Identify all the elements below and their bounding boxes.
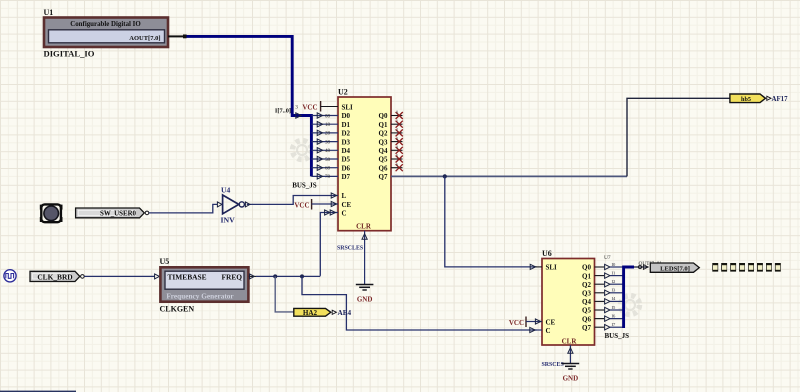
svg-text:D0: D0	[342, 112, 351, 120]
pin Q3 of U6 with bus entry to LED bus	[582, 288, 624, 298]
svg-text:08: 08	[325, 114, 331, 119]
svg-text:Frequency Generator: Frequency Generator	[166, 291, 234, 300]
LED D3	[730, 263, 736, 272]
svg-text:Q3: Q3	[379, 138, 388, 146]
port SW_USER0	[76, 208, 149, 218]
wire Q7 down to U6 SLI	[445, 176, 537, 267]
svg-text:CE: CE	[546, 318, 556, 326]
svg-text:CE: CE	[342, 201, 352, 209]
svg-text:INV: INV	[221, 215, 236, 224]
svg-text:AE4: AE4	[338, 309, 352, 317]
pin Q1 of U2 with no-ERC cross	[379, 118, 403, 128]
pin Q7 of U6 with bus entry to LED bus	[582, 322, 624, 332]
svg-text:58: 58	[325, 158, 331, 163]
watermark gear near U2 bus	[293, 141, 312, 160]
svg-text:VCC: VCC	[294, 202, 309, 210]
pin Q2 of U6 with bus entry to LED bus	[582, 279, 624, 289]
pin Q2 of U2 with no-ERC cross	[379, 127, 403, 138]
pin Q1 of U6 with bus entry to LED bus	[582, 270, 624, 280]
svg-text:3: 3	[295, 105, 298, 111]
svg-text:C: C	[546, 327, 551, 335]
bus wire AOUT[7..0] from U1 to U2 D inputs	[187, 36, 312, 176]
wire FREQ output to U2 C pin	[256, 275, 320, 277]
bus entry arrow at D0 corner	[296, 113, 301, 118]
svg-text:SRSCLES: SRSCLES	[337, 245, 364, 251]
bus wire I[7..0] to LEDS port	[624, 267, 634, 328]
pin FREQ of U5	[249, 274, 256, 279]
svg-text:Q5: Q5	[582, 307, 591, 315]
pin D7 of U2 with bus entry	[311, 173, 350, 181]
svg-text:48: 48	[325, 149, 331, 154]
sheet symbol U1 Configurable Digital IO	[44, 8, 169, 59]
dark screen edge artifact bottom-left	[0, 391, 76, 392]
LED D6	[757, 263, 763, 272]
svg-text:CLR: CLR	[562, 337, 578, 345]
svg-text:3: 3	[396, 136, 398, 141]
ground symbol GND below U6	[562, 364, 580, 383]
svg-text:68: 68	[325, 167, 331, 172]
svg-text:D6: D6	[342, 164, 351, 172]
pin Q0 of U6 with bus entry to LED bus	[582, 262, 624, 272]
svg-text:28: 28	[325, 132, 331, 137]
LED D7	[766, 263, 772, 272]
svg-text:U5: U5	[160, 257, 170, 266]
pin L of U2, wire from U4 output	[247, 192, 347, 204]
svg-text:SW_USER0: SW_USER0	[100, 211, 137, 218]
svg-text:VCC: VCC	[302, 104, 317, 112]
LED D4	[739, 263, 745, 272]
svg-text:38: 38	[325, 140, 331, 145]
pin D0 of U2 with bus entry	[311, 112, 350, 120]
svg-text:Q1: Q1	[582, 272, 591, 280]
LED D5	[748, 263, 754, 272]
pin D6 of U2 with bus entry	[311, 164, 350, 172]
svg-text:Q2: Q2	[582, 281, 591, 289]
pin Q5 of U2 with no-ERC cross	[379, 153, 403, 164]
svg-text:SRSCES: SRSCES	[542, 362, 565, 368]
pin D4 of U2 with bus entry	[311, 147, 350, 155]
inverter U4 INV	[217, 185, 250, 224]
svg-text:D4: D4	[342, 147, 351, 155]
LED D1	[712, 263, 718, 272]
component U6 (8-bit register) body	[542, 249, 595, 345]
svg-text:D7: D7	[342, 173, 351, 181]
svg-text:Q6: Q6	[379, 164, 388, 172]
svg-text:78: 78	[325, 175, 331, 180]
svg-text:1: 1	[396, 118, 398, 123]
wire FREQ to U6 C pin	[302, 276, 537, 330]
ground symbol GND below U2	[356, 285, 374, 304]
pin C of U2, wire from frequency generator	[320, 209, 346, 276]
push button SW_USER0	[40, 204, 63, 222]
svg-text:BUS_JS: BUS_JS	[292, 182, 317, 190]
pin CE of U2	[312, 201, 352, 209]
svg-text:Q7: Q7	[582, 324, 591, 332]
svg-text:Q0: Q0	[379, 112, 388, 120]
wire Q7 up to hb5/AF17 port	[627, 98, 730, 176]
pin AOUT of U1	[168, 35, 187, 39]
svg-text:FREQ: FREQ	[221, 273, 242, 282]
svg-text:TIMEBASE: TIMEBASE	[168, 273, 207, 282]
svg-text:D2: D2	[342, 130, 351, 138]
sheet symbol U5 Frequency Generator	[160, 257, 249, 314]
svg-text:DIGITAL_IO: DIGITAL_IO	[44, 49, 95, 59]
svg-text:VCC: VCC	[509, 319, 524, 327]
power port VCC at U6 CE pin	[509, 317, 526, 328]
wire CLK_BRD to U5 input	[84, 274, 159, 279]
svg-text:2: 2	[396, 127, 398, 132]
pin C of U6	[530, 327, 551, 335]
pin Q6 of U6 with bus entry to LED bus	[582, 313, 624, 323]
svg-text:I[7..0]: I[7..0]	[275, 108, 291, 115]
svg-text:Q6: Q6	[582, 315, 591, 323]
svg-text:HA2: HA2	[303, 309, 318, 317]
svg-text:Q5: Q5	[379, 156, 388, 164]
pin SLI of U2	[295, 103, 353, 111]
svg-text:U4: U4	[221, 185, 230, 194]
svg-text:Q2: Q2	[379, 130, 388, 138]
svg-text:L: L	[342, 192, 347, 200]
svg-text:Q7: Q7	[379, 173, 388, 181]
LED D8	[775, 263, 781, 272]
port LEDS[7.0]	[650, 263, 699, 272]
pin Q7 of U2	[379, 173, 388, 181]
svg-text:6: 6	[396, 162, 398, 167]
junction on FREQ net at U6 drop	[300, 274, 304, 278]
pin D5 of U2 with bus entry	[311, 156, 350, 164]
svg-text:BUS_JS: BUS_JS	[605, 332, 630, 340]
pin CLR of U2	[356, 222, 372, 284]
svg-text:5: 5	[396, 153, 398, 158]
svg-text:D5: D5	[342, 156, 351, 164]
LED D2	[721, 263, 727, 272]
svg-text:SLI: SLI	[546, 264, 558, 272]
pin Q6 of U2 with no-ERC cross	[379, 162, 403, 173]
svg-text:AOUT[7.0]: AOUT[7.0]	[129, 35, 160, 42]
svg-text:Q4: Q4	[379, 147, 388, 155]
svg-text:D3: D3	[342, 138, 351, 146]
svg-text:CLK_BRD: CLK_BRD	[37, 272, 72, 281]
svg-text:Q1: Q1	[379, 121, 388, 129]
junction on FREQ net at HA2 drop	[273, 274, 277, 278]
svg-text:CLKGEN: CLKGEN	[160, 305, 195, 314]
junction on Q7 net	[443, 174, 447, 178]
svg-text:Q0: Q0	[582, 264, 591, 272]
svg-text:U2: U2	[338, 88, 348, 97]
port CLK_BRD	[30, 271, 84, 281]
pin D1 of U2 with bus entry	[311, 121, 350, 129]
pin SLI of U6	[530, 264, 557, 272]
pin Q5 of U6 with bus entry to LED bus	[582, 305, 624, 315]
svg-text:U7: U7	[604, 255, 611, 261]
svg-text:18: 18	[325, 123, 331, 128]
wire SW_USER0 to U4 input	[149, 204, 217, 213]
port hb5 (pin AF17)	[730, 94, 788, 103]
svg-text:AF17: AF17	[772, 96, 789, 103]
wire FREQ to HA2 port	[275, 276, 294, 312]
pin Q4 of U2 with no-ERC cross	[379, 145, 403, 156]
pin Q0 of U2 with no-ERC cross	[379, 110, 403, 121]
svg-text:CLR: CLR	[356, 222, 372, 230]
pin D3 of U2 with bus entry	[311, 138, 350, 146]
clock source icon	[4, 270, 16, 282]
svg-text:GND: GND	[357, 296, 373, 304]
svg-text:Q3: Q3	[582, 290, 591, 298]
power port VCC at U2 CE pin	[294, 199, 311, 210]
svg-text:Q4: Q4	[582, 298, 591, 306]
svg-text:U6: U6	[542, 249, 552, 258]
svg-text:SLI: SLI	[342, 103, 354, 111]
svg-text:U1: U1	[44, 8, 54, 17]
svg-text:0: 0	[396, 110, 398, 115]
pin D2 of U2 with bus entry	[311, 130, 350, 138]
pin Q3 of U2 with no-ERC cross	[379, 136, 403, 147]
svg-text:Configurable Digital IO: Configurable Digital IO	[70, 21, 141, 28]
wire Q7 of U2 to the right	[391, 175, 627, 177]
svg-text:D1: D1	[342, 121, 351, 129]
svg-text:GND: GND	[563, 375, 579, 383]
pin CE of U6	[526, 318, 556, 326]
svg-text:LEDS[7.0]: LEDS[7.0]	[660, 265, 690, 272]
component U2 (8-bit register) body	[338, 88, 391, 231]
svg-text:hb5: hb5	[741, 96, 751, 103]
power port VCC at U2 SLI pin	[302, 101, 320, 112]
svg-text:C: C	[342, 209, 347, 217]
port HA2 (pin AE4)	[294, 308, 352, 317]
watermark gear near U6 bus	[621, 296, 640, 315]
pin CLR of U6	[562, 337, 578, 363]
pin Q4 of U6 with bus entry to LED bus	[582, 296, 624, 306]
